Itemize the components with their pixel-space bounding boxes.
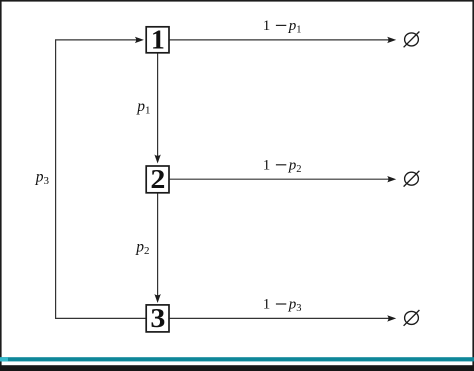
svg-text:1: 1 xyxy=(151,25,165,55)
svg-text:2: 2 xyxy=(150,164,165,194)
svg-text:3: 3 xyxy=(150,303,165,333)
